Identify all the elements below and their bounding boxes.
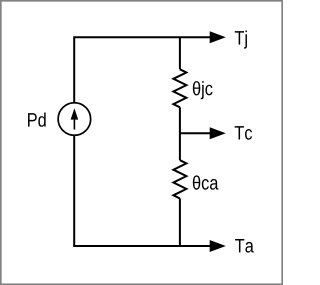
label Ta xyxy=(235,239,254,253)
label Pd xyxy=(28,112,46,126)
current source Pd circle xyxy=(58,103,91,136)
wire: left vertical lower + bottom rail Ta xyxy=(74,135,210,246)
resistor THETAca zigzag xyxy=(173,160,186,198)
wire: right vertical bottom segment xyxy=(179,199,181,247)
label THETAca xyxy=(193,175,219,189)
current source arrowhead xyxy=(71,108,79,119)
node Tj arrowhead xyxy=(210,31,226,43)
label THETAjc xyxy=(193,81,213,99)
label Tc xyxy=(235,126,252,140)
current source arrow shaft xyxy=(73,119,75,130)
resistor THETAjc zigzag xyxy=(173,69,186,107)
wire: top rail Tj + left vertical upper xyxy=(74,37,210,102)
wire: Tc stub xyxy=(180,132,211,134)
node Ta arrowhead xyxy=(210,240,226,252)
label Tj xyxy=(235,30,247,48)
node Tc arrowhead xyxy=(210,127,226,139)
wire: right vertical middle segment xyxy=(179,107,181,160)
wire: right vertical top segment xyxy=(179,37,181,69)
